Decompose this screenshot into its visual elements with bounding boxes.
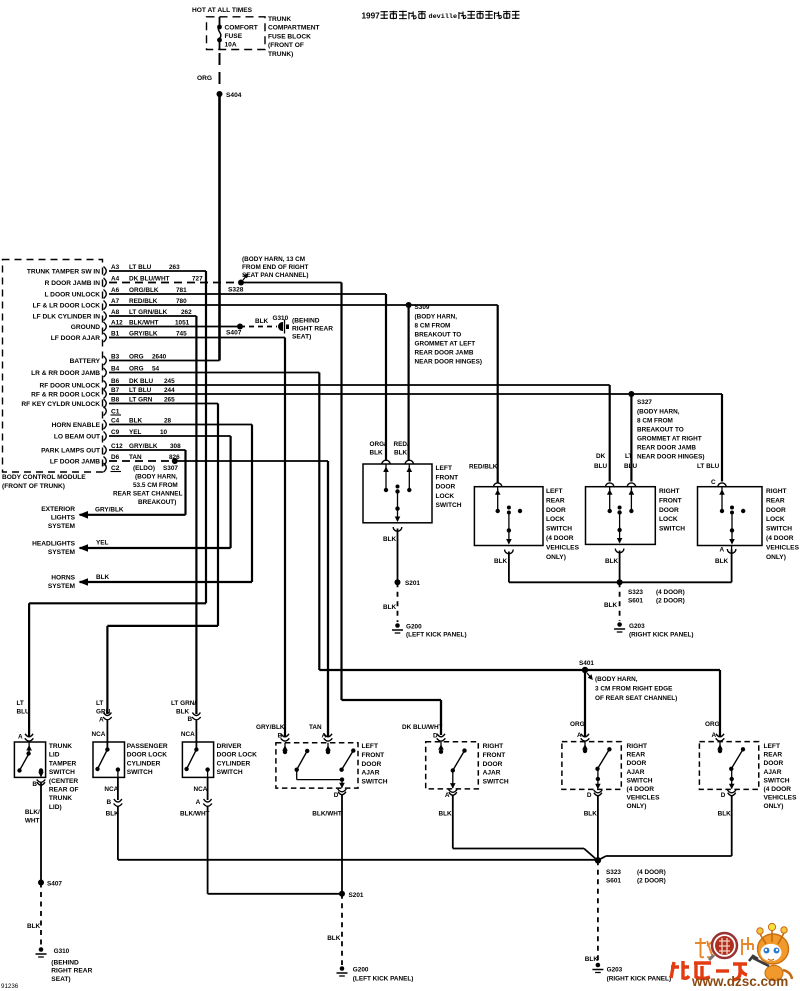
svg-text:BLK: BLK [96,574,110,581]
splice S407 (on BCM ground wire) [226,324,243,337]
diagram title: 1997 Cadillac deville anti-theft system circuit [362,11,520,21]
svg-text:FRONT: FRONT [659,497,682,504]
svg-text:SWITCH: SWITCH [764,777,790,784]
svg-text:CYLINDER: CYLINDER [127,760,161,767]
svg-text:RF & RR DOOR LOCK: RF & RR DOOR LOCK [31,392,100,399]
svg-text:G310: G310 [54,948,70,955]
svg-text:DOOR: DOOR [436,484,456,491]
svg-text:91236: 91236 [1,983,19,990]
svg-text:(4 DOOR): (4 DOOR) [637,869,666,876]
svg-text:COMPARTMENT: COMPARTMENT [268,25,320,32]
svg-text:BLK: BLK [715,558,729,565]
svg-text:DK BLU: DK BLU [129,378,154,385]
svg-text:DOOR: DOOR [766,507,786,514]
svg-text:REAR DOOR JAMB: REAR DOOR JAMB [415,349,474,356]
splice S401 [579,660,594,679]
svg-text:SWITCH: SWITCH [659,526,685,533]
BCM pin C2 [104,463,122,472]
svg-text:RED/: RED/ [394,441,409,448]
svg-text:RIGHT REAR: RIGHT REAR [51,968,92,975]
svg-text:R DOOR JAMB IN: R DOOR JAMB IN [45,280,101,287]
svg-text:A8: A8 [111,309,120,316]
svg-text:RIGHT: RIGHT [659,488,680,495]
ground G200 (left kick panel) [392,623,467,638]
annotation for S309 [415,313,482,365]
BCM pin B3 (BATTERY) [70,354,167,366]
svg-text:REAR DOOR JAMB: REAR DOOR JAMB [637,445,696,452]
svg-text:GRY/BLK: GRY/BLK [95,507,124,514]
svg-text:BLK: BLK [327,935,341,942]
svg-text:AJAR: AJAR [764,769,782,776]
svg-text:G203: G203 [607,967,623,974]
svg-text:BLK: BLK [605,558,619,565]
svg-text:S601: S601 [628,598,643,605]
svg-text:2640: 2640 [152,354,167,361]
svg-text:LF DLK CYLINDER IN: LF DLK CYLINDER IN [33,314,101,321]
svg-text:S407: S407 [226,330,242,337]
svg-text:GRN: GRN [96,709,111,716]
svg-text:B: B [188,716,193,723]
svg-text:1051: 1051 [175,320,190,327]
wire BLK dashed from S201 to ground G200 [383,582,398,622]
svg-text:(BODY HARN,: (BODY HARN, [637,409,680,416]
BCM pin A7 (LF & LR DOOR LOCK) [33,298,188,310]
svg-text:245: 245 [164,378,175,385]
svg-text:SWITCH: SWITCH [627,777,653,784]
wire BLK from S407 to ground G310 [240,318,277,327]
svg-text:ORG: ORG [570,721,585,728]
svg-text:B7: B7 [111,387,120,394]
svg-text:YEL: YEL [129,429,142,436]
svg-text:LF DOOR JAMB: LF DOOR JAMB [50,459,100,466]
svg-text:OF REAR SEAT CHANNEL): OF REAR SEAT CHANNEL) [595,695,677,702]
svg-text:ONLY): ONLY) [766,554,786,561]
svg-text:RIGHT: RIGHT [483,743,504,750]
svg-text:BLK/: BLK/ [25,809,40,816]
svg-text:VEHICLES: VEHICLES [766,544,800,551]
wire BLK dashed from junction to ground G203 [604,582,620,621]
wire BLK/WHT 1051 from pin A12 to splice S407 [109,326,238,328]
svg-text:DK BLU/WHT: DK BLU/WHT [402,724,443,731]
wire BLK/WHT from driver cylinder switch to splice S201 [180,777,340,893]
wire DK BLU 245 from pin B6 to right front door lock switch [109,385,610,482]
svg-text:(BODY HARN,: (BODY HARN, [595,676,638,683]
wire ORG 2640 pin B3 stub to battery vertical [109,360,220,362]
svg-text:DOOR LOCK: DOOR LOCK [127,752,168,759]
svg-text:LO BEAM OUT: LO BEAM OUT [54,434,100,441]
wire ORG from S401 to left rear door ajar switch pin A [585,670,720,737]
svg-text:ORG: ORG [197,75,212,82]
output arrow to EXTERIOR LIGHTS SYSTEM [41,506,124,530]
svg-text:REAR OF: REAR OF [49,787,79,794]
splice S328 [228,275,248,294]
svg-text:VEHICLES: VEHICLES [546,544,580,551]
svg-text:SWITCH: SWITCH [362,779,388,786]
BCM pin D6 (LF DOOR JAMB) [50,454,180,466]
ground G310 (behind right rear seat) [36,947,93,983]
svg-text:BLK: BLK [584,811,598,818]
svg-text:(4 DOOR: (4 DOOR [546,535,574,542]
svg-text:NCA: NCA [92,731,106,738]
svg-text:(LEFT KICK PANEL): (LEFT KICK PANEL) [353,976,414,983]
ground G203 (right kick panel, bottom) [592,963,671,983]
svg-text:LID: LID [49,752,60,759]
wire BLK from left rear door lock switch to splice S323 junction [494,550,617,583]
svg-text:SYSTEM: SYSTEM [48,549,76,556]
svg-text:VEHICLES: VEHICLES [764,795,798,802]
svg-text:RIGHT: RIGHT [766,488,787,495]
svg-text:TRUNK: TRUNK [49,795,72,802]
svg-text:LT BLU: LT BLU [697,463,720,470]
svg-text:265: 265 [164,397,175,404]
wire ORG from fuse to splice S404 [197,53,220,88]
BCM pin C12 (PARK LAMPS OUT) [41,443,181,455]
svg-text:LEFT: LEFT [764,743,780,750]
component: LEFT REAR DOOR LOCK SWITCH (4 door vehicles only) [469,464,580,561]
svg-text:PASSENGER: PASSENGER [127,743,168,750]
svg-text:S401: S401 [579,660,594,667]
svg-text:S307: S307 [163,465,178,472]
wire DK BLU/WHT 727 from pin A4 (dashed) to splice S328 [109,282,239,284]
svg-text:(ELDO): (ELDO) [133,465,155,472]
svg-text:TRUNK TAMPER SW IN: TRUNK TAMPER SW IN [27,269,100,276]
svg-text:NCA: NCA [181,731,195,738]
svg-text:D6: D6 [111,454,120,461]
component: LEFT FRONT DOOR LOCK SWITCH [363,441,462,523]
svg-text:BODY CONTROL MODULE: BODY CONTROL MODULE [2,474,86,481]
svg-text:REAR SEAT CHANNEL: REAR SEAT CHANNEL [113,491,183,498]
svg-text:A7: A7 [111,298,120,305]
svg-text:RIGHT: RIGHT [627,743,648,750]
svg-text:G310: G310 [273,315,289,322]
wire BLK from right front door lock switch down to splice junction [605,549,624,583]
component: PASSENGER DOOR LOCK CYLINDER SWITCH [92,700,168,777]
svg-text:DRIVER: DRIVER [217,743,242,750]
svg-text:GROMMET AT LEFT: GROMMET AT LEFT [415,340,476,347]
svg-text:AJAR: AJAR [362,770,380,777]
svg-text:WHT: WHT [25,818,40,825]
svg-text:ORG/: ORG/ [370,441,387,448]
svg-text:(LEFT KICK PANEL): (LEFT KICK PANEL) [406,632,467,639]
svg-text:SYSTEM: SYSTEM [48,583,76,590]
svg-text:(BEHIND: (BEHIND [292,318,320,325]
wire TAN 826 from pin D6 (dashed) to splice S307 [109,460,173,462]
svg-text:S404: S404 [226,92,242,99]
annotation for S307: (ELDO) S307 BODY HARN 53.5 CM FROM REAR SEAT CHANNEL BREAKOUT [113,465,183,506]
svg-text:FRONT: FRONT [362,752,385,759]
svg-text:FROM END OF RIGHT: FROM END OF RIGHT [242,264,308,271]
svg-text:A4: A4 [111,276,120,283]
svg-text:(BODY HARN,: (BODY HARN, [135,474,178,481]
svg-text:LT GRN/: LT GRN/ [171,700,196,707]
svg-text:D: D [721,792,726,799]
svg-text:(2 DOOR): (2 DOOR) [656,598,685,605]
svg-text:D: D [587,792,592,799]
svg-text:FUSE: FUSE [225,33,243,40]
svg-text:8 CM FROM: 8 CM FROM [637,418,673,425]
wire RED/BLK 780 from pin A7 to splice S309 and door lock switches [109,305,498,484]
svg-text:LT GRN/BLK: LT GRN/BLK [129,309,168,316]
svg-text:D: D [334,792,339,799]
wire BLK from right front door ajar switch to splice S323 junction [439,790,597,860]
svg-text:www.dzsc.com: www.dzsc.com [691,974,788,989]
svg-text:244: 244 [164,387,175,394]
svg-text:B6: B6 [111,378,120,385]
svg-text:745: 745 [176,331,187,338]
svg-text:(FRONT OF TRUNK): (FRONT OF TRUNK) [2,483,65,490]
svg-text:LT: LT [96,700,103,707]
svg-text:(RIGHT KICK PANEL): (RIGHT KICK PANEL) [629,632,694,639]
svg-text:LT BLU: LT BLU [129,264,152,271]
svg-text:FUSE BLOCK: FUSE BLOCK [268,33,311,40]
component: RIGHT REAR DOOR LOCK SWITCH (4 door vehicles only) [697,463,800,561]
wire DK BLU/WHT 727 from S328 to right front door ajar switch pin D [241,283,441,736]
svg-text:(BODY HARN,: (BODY HARN, [415,313,458,320]
svg-text:NEAR DOOR HINGES): NEAR DOOR HINGES) [415,358,482,365]
svg-text:HOT AT ALL TIMES: HOT AT ALL TIMES [192,7,253,14]
svg-text:1997: 1997 [362,12,381,21]
svg-text:NCA: NCA [194,786,208,793]
svg-text:SWITCH: SWITCH [217,769,243,776]
svg-text:LT BLU: LT BLU [129,387,152,394]
svg-text:LT: LT [625,453,632,460]
svg-text:deville: deville [429,13,458,21]
svg-text:BLK: BLK [718,811,732,818]
ground G200 (left kick panel, bottom) [337,966,414,982]
splice S307 [172,458,178,464]
svg-text:BLK: BLK [129,418,143,425]
fuse block label: TRUNK COMPARTMENT FUSE BLOCK (FRONT OF TRUNK) [268,16,320,58]
svg-text:ORG: ORG [129,366,144,373]
BCM pin A3 (TRUNK TAMPER SW IN) [27,264,180,276]
svg-text:GRY/BLK: GRY/BLK [256,724,285,731]
svg-text:FRONT: FRONT [483,752,506,759]
svg-text:B: B [32,781,37,788]
svg-text:B4: B4 [111,366,120,373]
svg-text:LID): LID) [49,804,62,811]
svg-text:(BEHIND: (BEHIND [51,960,79,967]
svg-text:TRUNK: TRUNK [268,16,291,23]
wire YEL 10 from pin C9 to headlights system [80,436,231,548]
svg-text:308: 308 [170,443,181,450]
svg-text:BLK: BLK [255,318,269,325]
svg-text:DOOR: DOOR [546,507,566,514]
wire LT BLU 244 from pin B7 to splice S327 and right door lock switches [109,394,722,482]
BCM pin C1 [104,407,122,416]
svg-text:SEAT): SEAT) [292,334,311,341]
svg-text:10: 10 [160,429,168,436]
svg-text:BLK: BLK [494,558,508,565]
svg-text:REAR: REAR [627,752,646,759]
svg-text:DOOR: DOOR [362,761,382,768]
svg-text:ORG: ORG [129,354,144,361]
splice S323/S601 (door ajar switch grounds) [595,857,666,884]
svg-text:S309: S309 [415,304,430,311]
watermark logo: dzsc.com mascot and text [671,923,792,989]
BCM pin B8 (RF KEY CYLDR UNLOCK) [21,397,175,409]
svg-text:54: 54 [152,366,160,373]
svg-text:BLK/WHT: BLK/WHT [129,320,159,327]
svg-text:B: B [278,733,283,740]
svg-text:781: 781 [176,287,187,294]
svg-text:S201: S201 [349,892,364,899]
svg-text:S323: S323 [606,869,621,876]
ground G203 (right kick panel) [614,622,693,638]
svg-text:GRY/BLK: GRY/BLK [129,443,158,450]
BCM pin C4 (HORN ENABLE) [52,418,172,430]
svg-text:A: A [720,547,725,554]
svg-text:RF DOOR UNLOCK: RF DOOR UNLOCK [40,383,101,390]
svg-text:LR & RR DOOR JAMB: LR & RR DOOR JAMB [31,370,100,377]
svg-text:FRONT: FRONT [436,474,459,481]
svg-text:TAN: TAN [129,454,142,461]
svg-text:BREAKOUT TO: BREAKOUT TO [637,427,684,434]
svg-text:DOOR LOCK: DOOR LOCK [217,752,258,759]
wire GRY/BLK 308 from pin C12 to exterior lights system [80,450,186,515]
BCM pin B1 (LF DOOR AJAR) [51,331,187,343]
svg-text:TAN: TAN [309,724,322,731]
junction splice S323/S601 (door lock switch grounds) [617,579,685,604]
svg-text:S328: S328 [228,287,244,294]
svg-text:HORNS: HORNS [51,575,75,582]
svg-text:L DOOR UNLOCK: L DOOR UNLOCK [44,292,100,299]
svg-text:BREAKOUT): BREAKOUT) [138,499,176,506]
component: LEFT REAR DOOR AJAR SWITCH (4 door vehicles only, dashed box) [699,721,797,810]
svg-text:TRUNK: TRUNK [49,743,72,750]
wire LT GRN/BLK 262 from pin A8 to driver door lock cylinder switch [109,316,196,714]
svg-text:LOCK: LOCK [436,493,455,500]
svg-text:(FRONT OF: (FRONT OF [268,42,304,49]
output arrow to HORNS SYSTEM [48,574,110,590]
annotation for S328: BODY HARN 13 CM FROM END OF RIGHT SEAT PAN CHANNEL [242,256,309,279]
svg-text:(4 DOOR: (4 DOOR [764,786,792,793]
svg-text:C: C [711,479,716,486]
wire BLK from left rear door ajar switch to splice S323 [599,790,737,860]
svg-text:B1: B1 [111,331,120,338]
annotation for S327 [637,409,704,461]
BCM pin A12 (GROUND) [71,320,190,332]
svg-text:ONLY): ONLY) [764,803,784,810]
svg-text:(4 DOOR: (4 DOOR [766,535,794,542]
svg-text:LF & LR DOOR LOCK: LF & LR DOOR LOCK [33,303,101,310]
svg-text:ONLY): ONLY) [546,554,566,561]
svg-text:SWITCH: SWITCH [49,769,75,776]
svg-text:(2 DOOR): (2 DOOR) [637,878,666,885]
svg-text:HEADLIGHTS: HEADLIGHTS [32,541,75,548]
annotation for S401: BODY HARN 3 CM FROM RIGHT EDGE OF REAR SEAT CHANNEL [595,676,677,702]
svg-text:CYLINDER: CYLINDER [217,760,251,767]
svg-text:BLK: BLK [370,450,384,457]
svg-text:AJAR: AJAR [483,770,501,777]
svg-text:LEFT: LEFT [436,465,452,472]
svg-text:GRY/BLK: GRY/BLK [129,331,158,338]
splice S201 (left kick panel, bottom) [339,891,364,899]
svg-text:LEFT: LEFT [546,488,562,495]
svg-text:B3: B3 [111,354,120,361]
svg-text:780: 780 [176,298,187,305]
wire ORG/BLK 781 from pin A6 to left front door lock switch [109,294,386,461]
BCM pin A6 (L DOOR UNLOCK) [44,287,187,299]
svg-text:YEL: YEL [96,540,109,547]
svg-text:GROUND: GROUND [71,324,101,331]
svg-text:S327: S327 [637,399,652,406]
svg-text:8 CM FROM: 8 CM FROM [415,322,451,329]
BCM pin B6 (RF DOOR UNLOCK) [40,378,176,390]
svg-text:ORG: ORG [705,721,720,728]
svg-text:G200: G200 [406,624,422,631]
wire ORG 54 from pin B4 to splice S401 [109,373,583,671]
splice S404 [217,91,242,99]
wire BLK 28 from pin C4 to horns system [80,425,252,583]
svg-text:A: A [18,734,23,741]
svg-text:NCA: NCA [104,786,118,793]
svg-text:S323: S323 [628,589,643,596]
svg-text:SWITCH: SWITCH [483,779,509,786]
svg-text:ORG/BLK: ORG/BLK [129,287,159,294]
svg-text:VEHICLES: VEHICLES [627,795,661,802]
svg-text:SEAT PAN CHANNEL): SEAT PAN CHANNEL) [242,272,309,279]
component: RIGHT FRONT DOOR LOCK SWITCH [586,453,686,544]
svg-text:10A: 10A [225,42,237,49]
svg-text:A12: A12 [111,320,123,327]
wire BLK/WHT from left front door ajar switch to splice S201 [312,789,346,894]
svg-text:COMFORT: COMFORT [225,25,258,32]
svg-text:BLU: BLU [624,463,638,470]
svg-text:BLK: BLK [585,956,599,963]
svg-text:TRUNK): TRUNK) [268,51,293,58]
svg-text:GROMMET AT RIGHT: GROMMET AT RIGHT [637,436,702,443]
ground G310 (behind right rear seat), inline symbol [273,315,334,341]
svg-text:TAMPER: TAMPER [49,760,77,767]
svg-text:(4 DOOR: (4 DOOR [627,786,655,793]
svg-text:REAR: REAR [546,497,565,504]
svg-text:RF KEY CYLDR UNLOCK: RF KEY CYLDR UNLOCK [21,401,100,408]
wire BLK from junction up to right rear door lock switch pin A [620,547,736,583]
splice S309 [406,302,430,311]
svg-text:SWITCH: SWITCH [436,502,462,509]
svg-text:SWITCH: SWITCH [546,526,572,533]
svg-text:LOCK: LOCK [659,516,678,523]
wire GRY/BLK 745 from pin B1 to left front door ajar switch pin B [109,338,285,738]
svg-text:DOOR: DOOR [627,760,647,767]
wire BLK from left front door lock switch to splice S201 [383,527,402,580]
svg-text:LT GRN: LT GRN [129,397,153,404]
BCM pin B7 (RF & RR DOOR LOCK) [31,387,175,399]
svg-text:28: 28 [164,418,172,425]
wire ORG vertical S404 to BCM pin B3 (battery feed) [218,94,221,361]
svg-text:DK: DK [596,453,606,460]
svg-text:BLK: BLK [394,450,408,457]
splice S327 [628,391,652,406]
component: DRIVER DOOR LOCK CYLINDER SWITCH [171,700,257,777]
output arrow to HEADLIGHTS SYSTEM [32,540,108,557]
wire BLK dashed from S201 to ground G200 [327,894,342,965]
svg-text:(4 DOOR): (4 DOOR) [656,589,685,596]
svg-text:BLU: BLU [17,709,31,716]
svg-text:PARK LAMPS OUT: PARK LAMPS OUT [41,448,100,455]
svg-text:BLK: BLK [27,923,41,930]
svg-text:C4: C4 [111,418,120,425]
svg-text:262: 262 [181,309,192,316]
splice S201 (left kick panel harness) [395,579,421,587]
svg-text:DOOR: DOOR [483,761,503,768]
component: RIGHT REAR DOOR AJAR SWITCH (4 door vehicles only, dashed box) [562,721,660,810]
component: LEFT FRONT DOOR AJAR SWITCH (dashed box) [256,724,388,788]
fuse F1: COMFORT FUSE 10A in trunk compartment fuse block [192,7,265,50]
svg-text:G203: G203 [629,623,645,630]
svg-text:S601: S601 [606,878,621,885]
svg-text:3 CM FROM RIGHT EDGE: 3 CM FROM RIGHT EDGE [595,686,673,693]
